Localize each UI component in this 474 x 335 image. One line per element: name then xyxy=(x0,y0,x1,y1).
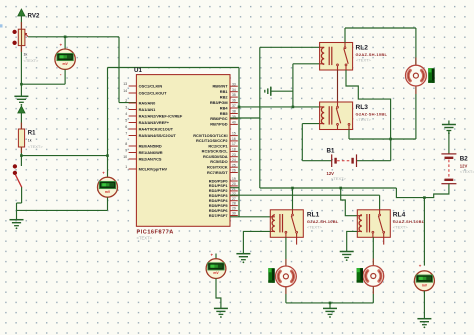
switch contact dot xyxy=(13,171,17,175)
green indicator block xyxy=(268,268,274,283)
wire RL4 coil2 to ground xyxy=(347,231,358,251)
svg-text:+: + xyxy=(211,253,214,258)
wire xyxy=(357,160,391,162)
junction xyxy=(291,187,294,190)
U1 pin 28 RD5/PSP5 xyxy=(230,205,238,207)
svg-text:RB2: RB2 xyxy=(220,94,229,99)
motor M1 xyxy=(276,266,297,287)
U1 pin 38 RB5 xyxy=(230,113,238,115)
wire xyxy=(271,90,293,92)
switch contact dot xyxy=(13,164,17,168)
svg-text:RC2/CCP1: RC2/CCP1 xyxy=(208,143,228,148)
voltmeter VM4 xyxy=(206,259,226,279)
svg-text:9: 9 xyxy=(125,149,127,153)
svg-text:G2AZ-SH-10BL: G2AZ-SH-10BL xyxy=(356,112,388,117)
svg-text:RC6/TX/CK: RC6/TX/CK xyxy=(207,165,228,170)
wire RL3 NO down xyxy=(348,130,350,140)
svg-text:RB5: RB5 xyxy=(220,111,229,116)
svg-text:5: 5 xyxy=(125,119,127,123)
svg-text:RB0/INT: RB0/INT xyxy=(212,84,228,89)
svg-text:10: 10 xyxy=(123,155,127,159)
svg-text:RE2/AN7/CS: RE2/AN7/CS xyxy=(139,156,162,161)
svg-text:RB4: RB4 xyxy=(220,105,229,110)
svg-text:20: 20 xyxy=(232,182,236,186)
svg-text:-: - xyxy=(60,72,62,78)
wire xyxy=(216,279,221,309)
svg-text:mV: mV xyxy=(422,283,428,287)
svg-text:8: 8 xyxy=(125,142,127,146)
wire motor3 return rail xyxy=(349,138,416,140)
svg-text:+: + xyxy=(102,171,105,176)
U1 pin 40 RB7/PGD xyxy=(230,123,238,125)
svg-text:RA4/T0CKI/C1OUT: RA4/T0CKI/C1OUT xyxy=(139,126,174,131)
wire RL1 to motor M1 xyxy=(285,237,287,259)
wire xyxy=(372,286,374,294)
junction xyxy=(292,106,295,109)
ground above B2 xyxy=(442,121,456,135)
U1 pin 3 RA1/AN1 xyxy=(129,109,137,111)
wire xyxy=(292,64,294,107)
node junction at voltmeter tap xyxy=(64,36,67,39)
wire xyxy=(379,195,381,210)
svg-text:<TEXT>: <TEXT> xyxy=(356,58,372,63)
U1 pin 29 RD6/PSP6 xyxy=(230,210,238,212)
svg-text:14: 14 xyxy=(123,89,127,93)
U1 pin 14 OSC2/CLKOUT xyxy=(129,92,137,94)
wire jog xyxy=(17,202,22,204)
wire B1 right riser xyxy=(390,139,392,161)
svg-text:G2AZ-SH-10BL: G2AZ-SH-10BL xyxy=(307,219,339,224)
battery B1 12V xyxy=(332,154,357,167)
svg-text:G2AZ-SH-10BL: G2AZ-SH-10BL xyxy=(393,219,425,224)
wire xyxy=(20,153,22,166)
svg-text:33: 33 xyxy=(232,82,236,86)
U1 pin 9 RE1/AN6/WR xyxy=(129,152,137,154)
svg-text:<TEXT>: <TEXT> xyxy=(393,225,409,230)
U1 pin 7 RA5/AN4/SS/C2OUT xyxy=(129,135,137,137)
ground xyxy=(214,308,228,318)
wire xyxy=(107,197,109,210)
U1 pin 6 RA4/T0CKI/C1OUT xyxy=(129,128,137,130)
wire vertical bus x239 xyxy=(238,68,240,217)
logic-state blue square at canvas edge xyxy=(0,24,3,27)
voltmeter VM3 xyxy=(414,271,434,291)
relay RL4 xyxy=(357,210,390,238)
svg-text:<TEXT>: <TEXT> xyxy=(356,117,372,122)
junction xyxy=(339,187,342,190)
wire RL2 coil2 xyxy=(293,63,320,65)
wire divider to voltmeter2 net xyxy=(21,155,107,157)
wire xyxy=(301,124,303,161)
svg-text:<TEXT>: <TEXT> xyxy=(460,169,474,174)
wire xyxy=(285,287,287,294)
junction xyxy=(238,106,241,109)
svg-text:MCLR/Vpp/THV: MCLR/Vpp/THV xyxy=(139,166,168,171)
svg-text:25: 25 xyxy=(232,163,236,167)
svg-text:RC5/SDO: RC5/SDO xyxy=(210,159,227,164)
wire RL4 to motor M2 xyxy=(372,237,374,258)
node junction R1 divider xyxy=(20,154,23,157)
wire xyxy=(21,187,23,203)
motor M3 xyxy=(415,86,417,94)
wire xyxy=(64,70,66,85)
svg-text:RL1: RL1 xyxy=(307,212,320,219)
wire RL2 coil feed vertical xyxy=(259,47,261,188)
RL4 unused pin stub xyxy=(383,237,385,244)
svg-text:35: 35 xyxy=(232,93,236,97)
svg-text:27: 27 xyxy=(232,197,236,201)
wire motors bottom rail xyxy=(286,302,373,304)
wire to PIC RA0 xyxy=(118,37,120,103)
U1 pin 19 RD0/PSP0 xyxy=(230,180,238,182)
ground rotated left xyxy=(265,87,271,96)
relay RL3 xyxy=(320,102,353,130)
relay RL1 xyxy=(270,210,303,238)
wire B2 bottom xyxy=(396,184,449,198)
svg-text:24: 24 xyxy=(232,158,236,162)
svg-text:OSC2/CLKOUT: OSC2/CLKOUT xyxy=(139,90,168,95)
U1 pin 5 RA3/AN3/VREF+ xyxy=(129,122,137,124)
wire stub xyxy=(215,254,217,259)
junction on ground wire xyxy=(20,83,23,86)
svg-text:RE0/AN5/RD: RE0/AN5/RD xyxy=(139,143,162,148)
svg-text:15: 15 xyxy=(232,132,236,136)
svg-text:RC3/SCK/SCL: RC3/SCK/SCL xyxy=(202,149,229,154)
svg-text:<TEXT>: <TEXT> xyxy=(331,176,347,181)
svg-text:RB1: RB1 xyxy=(220,89,229,94)
svg-text:16: 16 xyxy=(232,137,236,141)
RV2 pin stub xyxy=(20,22,22,29)
RL1 unused pin stub xyxy=(296,237,298,244)
svg-text:B1: B1 xyxy=(327,148,335,155)
U1 pin 22 RD3/PSP3 xyxy=(230,195,238,197)
wire xyxy=(16,210,18,219)
ground xyxy=(417,319,431,329)
wire RV2 wiper net xyxy=(28,36,119,38)
ground xyxy=(323,308,337,318)
svg-text:mV: mV xyxy=(62,62,68,66)
wire RD3 long to RL4 pole xyxy=(230,194,380,196)
U1 pin 13 OSC1/CLKIN xyxy=(129,85,137,87)
wire bottom rail to voltmeter2 xyxy=(17,209,108,211)
svg-text:RL2: RL2 xyxy=(356,45,369,52)
U1 pin 20 RD1/PSP1 xyxy=(230,185,238,187)
motor M2 xyxy=(363,266,384,287)
wire RB7 to relay net xyxy=(230,117,260,119)
junction xyxy=(106,154,109,157)
svg-text:RA0/AN0: RA0/AN0 xyxy=(139,100,156,105)
svg-text:7: 7 xyxy=(125,132,127,136)
power terminal arrow 2 xyxy=(18,106,25,113)
U1 pin 21 RD2/PSP2 xyxy=(230,190,238,192)
svg-text:RV2: RV2 xyxy=(28,13,40,20)
svg-text:40: 40 xyxy=(232,121,236,125)
junction xyxy=(329,302,332,305)
wire RL2 NC to RL3 pole xyxy=(337,70,339,102)
svg-text:OSC1/CLKIN: OSC1/CLKIN xyxy=(139,83,163,88)
svg-text:RC7/RX/DT: RC7/RX/DT xyxy=(207,170,228,175)
wire top rail to motor3 xyxy=(345,27,416,29)
resistor R1 xyxy=(18,129,24,147)
svg-text:RA2/AN2/VREF-/CVREF: RA2/AN2/VREF-/CVREF xyxy=(139,113,183,118)
svg-text:<TEXT>: <TEXT> xyxy=(24,58,40,63)
wire over PIC (vertical riser) xyxy=(107,68,109,177)
svg-text:<TEXT>: <TEXT> xyxy=(137,236,153,241)
svg-text:RB7/PGD: RB7/PGD xyxy=(210,122,227,127)
svg-text:RA3/AN3/VREF+: RA3/AN3/VREF+ xyxy=(139,120,170,125)
svg-text:23: 23 xyxy=(232,153,236,157)
junction xyxy=(389,138,392,141)
potentiometer RV2 xyxy=(18,29,25,45)
U1 pin 25 RC6/TX/CK xyxy=(230,166,238,168)
svg-text:+: + xyxy=(419,264,422,269)
voltmeter VM2 xyxy=(98,177,118,197)
RV2 pin stub xyxy=(20,46,22,52)
U1 pin 27 RD4/PSP4 xyxy=(230,200,238,202)
svg-text:mV: mV xyxy=(213,271,219,275)
svg-text:RL3: RL3 xyxy=(356,104,369,111)
wire xyxy=(20,16,22,22)
U1 pin 30 RD7/PSP7 xyxy=(230,215,238,217)
svg-text:1k: 1k xyxy=(24,53,28,57)
svg-text:17: 17 xyxy=(232,142,236,146)
wire xyxy=(21,83,65,85)
R1 pin stub xyxy=(20,123,22,130)
junction xyxy=(423,196,426,199)
svg-text:2: 2 xyxy=(125,99,127,103)
wire xyxy=(119,102,136,104)
logic-state dot xyxy=(12,30,16,34)
svg-text:mV: mV xyxy=(105,190,111,194)
wire xyxy=(20,113,22,123)
ground xyxy=(340,251,354,261)
wire RL2 NO staircase xyxy=(346,70,391,139)
svg-text:36: 36 xyxy=(232,99,236,103)
svg-text:13: 13 xyxy=(123,82,127,86)
wire xyxy=(20,52,22,96)
svg-text:28: 28 xyxy=(232,202,236,206)
svg-text:+: + xyxy=(60,43,63,48)
wire voltmeter3 drop xyxy=(423,198,425,266)
wire RL4 coil staircase xyxy=(341,188,358,216)
U1 pin 35 RB2 xyxy=(230,96,238,98)
svg-text:RA5/AN4/SS/C2OUT: RA5/AN4/SS/C2OUT xyxy=(139,133,177,138)
svg-text:R1: R1 xyxy=(28,131,36,137)
voltmeter VM1 xyxy=(55,49,75,69)
svg-text:3: 3 xyxy=(125,106,127,110)
logic-state dot xyxy=(12,41,16,45)
svg-text:G2AZ-SH-10BL: G2AZ-SH-10BL xyxy=(356,52,388,57)
green indicator block xyxy=(428,68,434,83)
wire RL1 coil2 to ground xyxy=(243,231,270,253)
U1 pin 15 RC0/T1OSO/T1CKI xyxy=(230,135,238,137)
svg-text:RE1/AN6/WR: RE1/AN6/WR xyxy=(139,150,163,155)
svg-text:38: 38 xyxy=(232,110,236,114)
U1 pin 17 RC2/CCP1 xyxy=(230,145,238,147)
svg-text:RL4: RL4 xyxy=(393,212,406,219)
svg-text:12V: 12V xyxy=(460,163,468,168)
svg-text:<TEXT>: <TEXT> xyxy=(28,144,44,149)
U1 pin 36 RB3/PGM xyxy=(230,102,238,104)
switch lever xyxy=(16,175,22,188)
svg-text:1: 1 xyxy=(125,165,127,169)
U1 pin 34 RB1 xyxy=(230,91,238,93)
svg-text:RA1/AN1: RA1/AN1 xyxy=(139,107,156,112)
U1 pin 4 RA2/AN2/VREF-/CVREF xyxy=(129,115,137,117)
svg-text:37: 37 xyxy=(232,104,236,108)
wire xyxy=(423,291,425,319)
wire xyxy=(448,131,450,155)
svg-text:B2: B2 xyxy=(460,156,468,163)
ground xyxy=(10,220,24,230)
relay RL2 xyxy=(320,43,353,71)
U1 pin 23 RC4/SDI/SDA xyxy=(230,156,238,158)
svg-text:19: 19 xyxy=(232,177,236,181)
wire over PIC horizontal xyxy=(108,67,240,69)
wire RL3 coil2 xyxy=(302,123,319,125)
svg-text:RD7/PSP7: RD7/PSP7 xyxy=(209,213,228,218)
wire to B1 left xyxy=(302,160,331,162)
wire xyxy=(64,37,66,49)
U1 pin 1 MCLR/Vpp/THV xyxy=(129,168,137,170)
svg-text:4: 4 xyxy=(125,112,127,116)
U1 pin 8 RE0/AN5/RD xyxy=(129,145,137,147)
svg-text:34: 34 xyxy=(232,88,236,92)
green indicator block xyxy=(357,268,363,283)
U1 pin 37 RB4 xyxy=(230,107,238,109)
R1 pin stub xyxy=(20,147,22,153)
U1 pin 39 RB6/PGC xyxy=(230,118,238,120)
ground xyxy=(236,254,250,264)
wire xyxy=(260,46,320,48)
svg-text:RC0/T1OSO/T1CKI: RC0/T1OSO/T1CKI xyxy=(193,133,227,138)
svg-text:18: 18 xyxy=(232,148,236,152)
ground xyxy=(14,96,28,106)
svg-text:1k: 1k xyxy=(28,139,32,143)
wire xyxy=(16,203,18,210)
wire xyxy=(415,28,417,65)
wire RD1 stub xyxy=(230,187,239,189)
svg-text:RB6/PGC: RB6/PGC xyxy=(210,116,227,121)
svg-text:29: 29 xyxy=(232,207,236,211)
svg-text:6: 6 xyxy=(125,125,127,129)
svg-text:U1: U1 xyxy=(134,67,142,74)
wire xyxy=(329,303,331,308)
wire to RL1 coil xyxy=(230,216,270,218)
wire RL1 pole drop xyxy=(292,188,294,210)
svg-text:30: 30 xyxy=(232,212,236,216)
U1 pin 24 RC5/SDO xyxy=(230,161,238,163)
svg-text:26: 26 xyxy=(232,169,236,173)
microcontroller U1 PIC16F877A body xyxy=(136,75,230,227)
wire to RL3 coil xyxy=(239,106,320,108)
U1 pin 2 RA0/AN0 xyxy=(129,102,137,104)
wire commons rail xyxy=(260,187,397,189)
U1 pin 26 RC7/RX/DT xyxy=(230,172,238,174)
U1 pin 18 RC3/SCK/SCL xyxy=(230,150,238,152)
battery B2 12V xyxy=(441,154,456,184)
svg-text:<TEXT>: <TEXT> xyxy=(307,225,323,230)
power terminal VCC arrow (top-left) xyxy=(18,9,25,16)
U1 pin 16 RC1/T1OSI/CCP2 xyxy=(230,140,238,142)
wire RL2 pole up xyxy=(344,28,346,43)
U1 pin 33 RB0/INT xyxy=(230,85,238,87)
svg-text:RB3/PGM: RB3/PGM xyxy=(210,100,228,105)
U1 pin 10 RE2/AN7/CS xyxy=(129,158,137,160)
